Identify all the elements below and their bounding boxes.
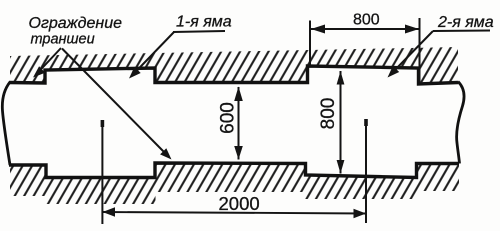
dimension 800 (top): value text <box>353 12 380 29</box>
svg-text:800: 800 <box>353 12 380 29</box>
leader from label to bottom edge (long diagonal branch) <box>62 49 172 160</box>
dimension 600: value text (rotated) <box>218 102 239 134</box>
break line left end <box>2 82 10 165</box>
svg-text:1-я яма: 1-я яма <box>176 14 232 31</box>
svg-text:2000: 2000 <box>219 193 260 214</box>
svg-text:2-я яма: 2-я яма <box>437 14 494 31</box>
dimension 800 (top, pit 2 width): extension line left <box>309 21 311 67</box>
dimension 2000: value text <box>219 193 260 214</box>
svg-text:траншеи: траншеи <box>31 32 95 48</box>
svg-text:600: 600 <box>218 102 239 134</box>
dimension 2000 (pit spacing): extension line left with cap <box>101 120 103 224</box>
label: Ограждение траншеи <box>29 15 123 48</box>
hatched ground band below trench <box>10 164 459 205</box>
svg-text:Ограждение: Ограждение <box>29 15 123 32</box>
dimension 800 (top): extension line right <box>419 18 421 82</box>
leader from label to trench fence edge (left branch) <box>33 48 61 78</box>
trench top edge profile with pit 1 and pit 2 recesses <box>9 66 458 84</box>
label: 1-я яма <box>176 14 232 31</box>
hatched ground band above trench <box>10 47 458 83</box>
leader from 2-я яма label into pit 2 <box>388 31 491 78</box>
dimension 800 (top): dimension line with arrows <box>310 25 420 34</box>
label: 2-я яма <box>437 14 494 31</box>
dimension 600 (trench width): dimension line with arrows <box>234 87 243 160</box>
leader from 1-я яма label into pit 1 <box>129 31 225 79</box>
dimension 800 (vertical, pit 2 height): dimension line with arrows <box>337 71 345 174</box>
trench bottom edge profile with pit 1 and pit 2 recesses <box>9 163 459 178</box>
dimension 2000: dimension line with arrows <box>102 207 366 218</box>
dimension 800 (vertical): value text (rotated) <box>318 98 339 130</box>
dimension 2000: extension line right with cap <box>365 119 367 223</box>
svg-text:800: 800 <box>318 98 339 130</box>
break line right end <box>457 82 465 164</box>
